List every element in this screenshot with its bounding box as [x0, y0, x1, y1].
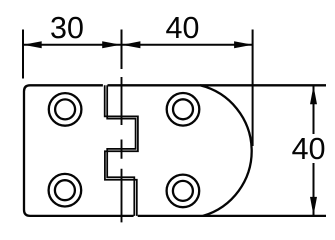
- arrow bottom of vertical 40: [310, 197, 317, 216]
- hole top-left inner: [55, 99, 75, 119]
- arrow left of 40 top: [122, 41, 140, 48]
- arrow right of 40 top: [234, 41, 253, 48]
- extension line center (x=121.3): [121, 30, 123, 70]
- extension line left (x=23.2): [22, 30, 24, 79]
- hole top-right outer: [167, 93, 200, 126]
- hinge joint wall (left leaf contour): [105, 85, 138, 216]
- right leaf top edge + top extension line of vertical dim: [108, 84, 327, 86]
- arrow top of vertical 40: [310, 86, 317, 105]
- extension line right (x=252.6): [252, 30, 254, 147]
- dim text 40 top: [166, 17, 198, 39]
- hole top-left outer: [49, 93, 82, 126]
- hole bottom-left inner: [55, 180, 75, 200]
- right leaf bottom edge + bottom extension line of vertical dim: [138, 215, 326, 217]
- dimension line 30: [23, 44, 121, 46]
- hole bottom-right outer: [167, 175, 200, 208]
- hole bottom-right inner: [173, 181, 193, 201]
- hole top-right inner: [173, 99, 193, 119]
- dimension line 40 top: [122, 44, 253, 46]
- arrow right of 30: [102, 41, 121, 48]
- hole bottom-left outer: [49, 174, 82, 207]
- hinge axis centerline (dashed): [121, 77, 123, 222]
- right leaf end arc: [200, 85, 252, 216]
- dim text 30: [51, 17, 83, 39]
- dim text 40 right: [292, 138, 324, 160]
- hinge joint wall (right leaf contour): [107, 85, 135, 216]
- dimension line 40 vertical: [313, 86, 315, 216]
- left leaf outline: [24, 85, 134, 216]
- arrow left of 30: [23, 41, 42, 48]
